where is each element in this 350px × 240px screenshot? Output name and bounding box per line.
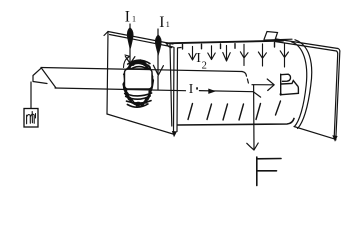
rotation arrow on coil xyxy=(124,56,130,67)
wire W1 with current arrow xyxy=(125,24,134,64)
right panel right edge xyxy=(334,49,340,141)
right panel flag corner xyxy=(264,32,278,41)
force arrow F xyxy=(247,85,261,150)
hatch marks inside tube bottom xyxy=(188,101,281,120)
svg-text:I: I xyxy=(189,81,194,96)
svg-text:2: 2 xyxy=(202,60,207,71)
rod (conducting bar) xyxy=(33,68,248,91)
svg-text:I: I xyxy=(159,14,164,31)
solenoid tube xyxy=(167,39,312,131)
plate P1 (left vertical plate) xyxy=(104,32,173,135)
right panel bottom edge xyxy=(294,127,334,139)
label F xyxy=(257,157,281,186)
arrow to B xyxy=(252,84,274,86)
svg-text:I: I xyxy=(196,51,201,66)
label B (hand drawn) xyxy=(280,74,299,95)
mass box m xyxy=(24,109,38,128)
svg-text:1: 1 xyxy=(166,20,170,29)
right panel top edge xyxy=(275,39,338,51)
string to mass xyxy=(30,82,32,109)
coil L1 (scribbled winding on plate) xyxy=(123,60,153,107)
wire W2 with current arrow xyxy=(153,29,163,90)
tick marks on tube top xyxy=(183,43,275,50)
rod window through coil xyxy=(125,69,153,89)
right panel corner fill xyxy=(332,135,337,142)
field arrows in tube xyxy=(189,44,289,68)
tube rim bottom tip xyxy=(172,131,177,137)
svg-text:I: I xyxy=(125,9,130,26)
svg-text:1: 1 xyxy=(132,15,136,24)
